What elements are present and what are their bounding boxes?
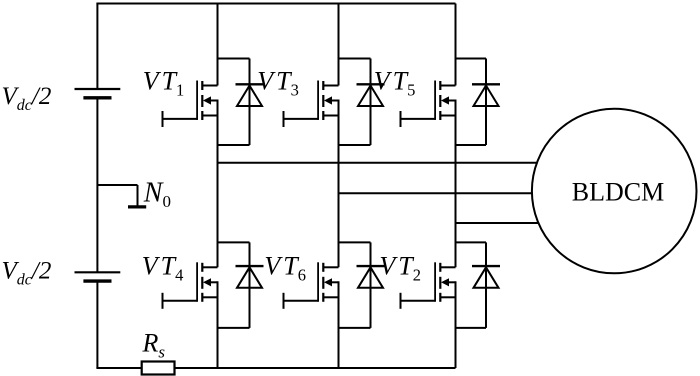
- svg-text:VT5: VT5: [374, 66, 416, 99]
- svg-text:VT2: VT2: [379, 251, 421, 284]
- svg-text:VT4: VT4: [142, 251, 184, 284]
- svg-text:VT6: VT6: [264, 251, 306, 284]
- svg-text:VT3: VT3: [257, 66, 299, 99]
- svg-text:BLDCM: BLDCM: [572, 178, 664, 207]
- svg-text:VT1: VT1: [143, 66, 185, 99]
